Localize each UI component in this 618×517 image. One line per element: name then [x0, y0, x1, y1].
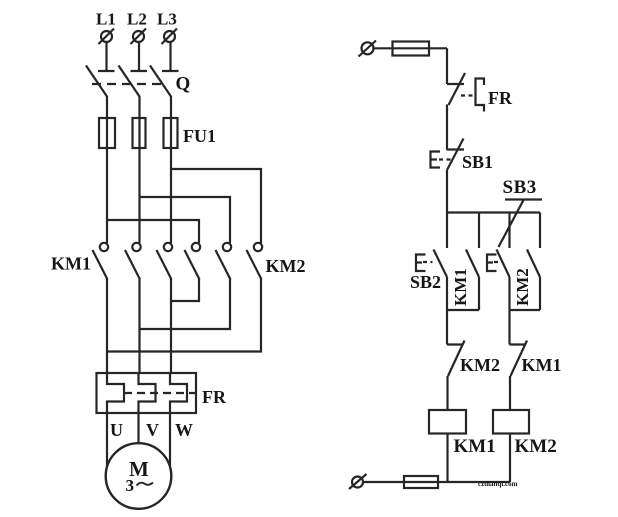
switch Q pole 3 [150, 66, 179, 97]
terminal L2 [131, 29, 147, 45]
pushbutton SB3 (start rev, NO) [487, 250, 510, 278]
svg-text:FR: FR [202, 387, 227, 407]
wire left branch to KM2 interlock [446, 310, 448, 345]
wire FR to motor W [169, 413, 171, 466]
FR heater element 1 [107, 373, 124, 413]
wire L1 to switch Q [105, 42, 107, 71]
interlock contact KM2 (NC) [447, 341, 465, 377]
svg-text:FR: FR [488, 88, 513, 108]
wire FR contact to SB1 [446, 105, 448, 150]
wire fuse FU2 down to FR contact [446, 48, 448, 84]
motor M [106, 443, 172, 509]
wire KM1 pole2 output to FR [138, 279, 140, 373]
FR trip linkage [124, 392, 195, 394]
wire crossover L1 to KM2 pole 4 [107, 220, 199, 243]
FR heater element 3 [170, 373, 187, 413]
contactor KM1 main contact 3 [157, 243, 173, 280]
wire SB3 down [508, 277, 510, 310]
wire KM2 pole4 output to phase C [171, 279, 199, 301]
wire crossover L2 to KM2 pole 5 [140, 197, 231, 243]
terminal L1 [99, 29, 115, 45]
contact KM1 auxiliary (seal-in) [466, 250, 479, 278]
svg-text:V: V [146, 420, 159, 440]
label SB3 with leader [499, 177, 543, 247]
coil KM1 [429, 410, 466, 434]
switch Q linkage [92, 83, 163, 85]
svg-text:KM1: KM1 [454, 436, 496, 457]
svg-text:KM1: KM1 [451, 268, 470, 306]
coil KM2 [493, 410, 529, 434]
wire SB1 to rail [446, 170, 448, 213]
wire rail to SB3 [508, 213, 510, 249]
wire FR to motor V [137, 413, 139, 444]
wire KM1 pole3 output to FR [170, 279, 172, 373]
wire KM2 pole6 output to phase A [107, 279, 261, 352]
wire KM2 pole5 output to phase B [140, 279, 231, 329]
svg-text:W: W [175, 420, 193, 440]
wire KM1 pole1 output to FR [106, 279, 108, 373]
contact KM2 auxiliary (seal-in) [527, 250, 540, 278]
svg-text:SB3: SB3 [503, 177, 537, 198]
terminal control neutral [349, 474, 367, 489]
svg-text:KM2: KM2 [266, 256, 306, 276]
wire rail to SB2 [446, 213, 448, 249]
contactor KM1 main contact 1 [93, 243, 109, 280]
fuse FU2 [393, 42, 430, 56]
switch Q pole 2 [119, 66, 148, 97]
svg-text:FU1: FU1 [183, 126, 216, 146]
FR trip element [461, 79, 484, 112]
wire crossover L3 to KM2 pole 6 [171, 169, 261, 243]
svg-text:L3: L3 [157, 10, 177, 29]
svg-text:czdianqi.com: czdianqi.com [478, 480, 518, 488]
svg-text:L2: L2 [127, 10, 147, 29]
pushbutton SB1 (stop, NC) [431, 139, 465, 171]
switch Q pole 1 [86, 66, 115, 97]
wire Q pole2 to FU1 [138, 96, 140, 243]
label 3~ [126, 476, 154, 495]
wire KM1 aux down [478, 277, 480, 310]
wire right branch to KM1 interlock [508, 310, 510, 345]
svg-text:KM1: KM1 [51, 254, 91, 274]
wire L2 to switch Q [138, 42, 140, 71]
wire FR to motor U [106, 413, 108, 467]
wire Q pole3 to FU1 [170, 96, 172, 243]
wire L3 to switch Q [169, 42, 171, 71]
terminal L3 [162, 29, 178, 45]
contactor KM2 main contact 5 [216, 243, 232, 280]
svg-text:KM2: KM2 [460, 355, 500, 375]
control rail node [447, 211, 540, 213]
contactor KM1 main contact 2 [125, 243, 141, 280]
wire SB2 down [446, 277, 448, 310]
svg-text:U: U [110, 420, 123, 440]
wire rail to KM1 aux [478, 213, 480, 249]
fuse FU1 element 1 [99, 118, 115, 148]
junction left branch [447, 309, 479, 311]
bottom rail to terminal [363, 481, 510, 483]
junction right branch [510, 309, 541, 311]
svg-text:SB1: SB1 [462, 152, 493, 172]
terminal control phase [359, 41, 377, 57]
wire KM2 aux down [539, 277, 541, 310]
wire terminal to fuse FU2 [374, 47, 448, 49]
contactor KM2 main contact 4 [185, 243, 201, 280]
wire coil KM2 to bottom rail [509, 434, 511, 483]
interlock contact KM1 (NC) [510, 341, 528, 377]
svg-text:KM2: KM2 [515, 436, 557, 457]
wire Q pole1 to FU1 [106, 96, 108, 243]
svg-text:KM1: KM1 [522, 355, 562, 375]
fuse FU3 (bottom) [404, 476, 438, 488]
FR heater element 2 [139, 373, 156, 413]
wire KM2 interlock to coil KM1 [446, 376, 448, 410]
svg-text:L1: L1 [96, 10, 116, 29]
fuse FU1 element 3 [164, 118, 178, 148]
wire KM1 interlock to coil KM2 [509, 376, 511, 410]
contactor KM2 main contact 6 [247, 243, 263, 280]
svg-text:SB2: SB2 [410, 272, 441, 292]
fuse FU1 element 2 [133, 118, 146, 148]
thermal relay FR box [97, 373, 197, 413]
svg-text:KM2: KM2 [513, 268, 532, 306]
thermal relay FR NC contact [447, 73, 465, 105]
svg-text:Q: Q [176, 74, 191, 95]
wire rail to KM2 aux [539, 213, 541, 249]
svg-text:3: 3 [126, 476, 135, 495]
pushbutton SB2 (start fwd, NO) [416, 250, 447, 278]
wire coil KM1 to bottom rail [446, 434, 448, 483]
